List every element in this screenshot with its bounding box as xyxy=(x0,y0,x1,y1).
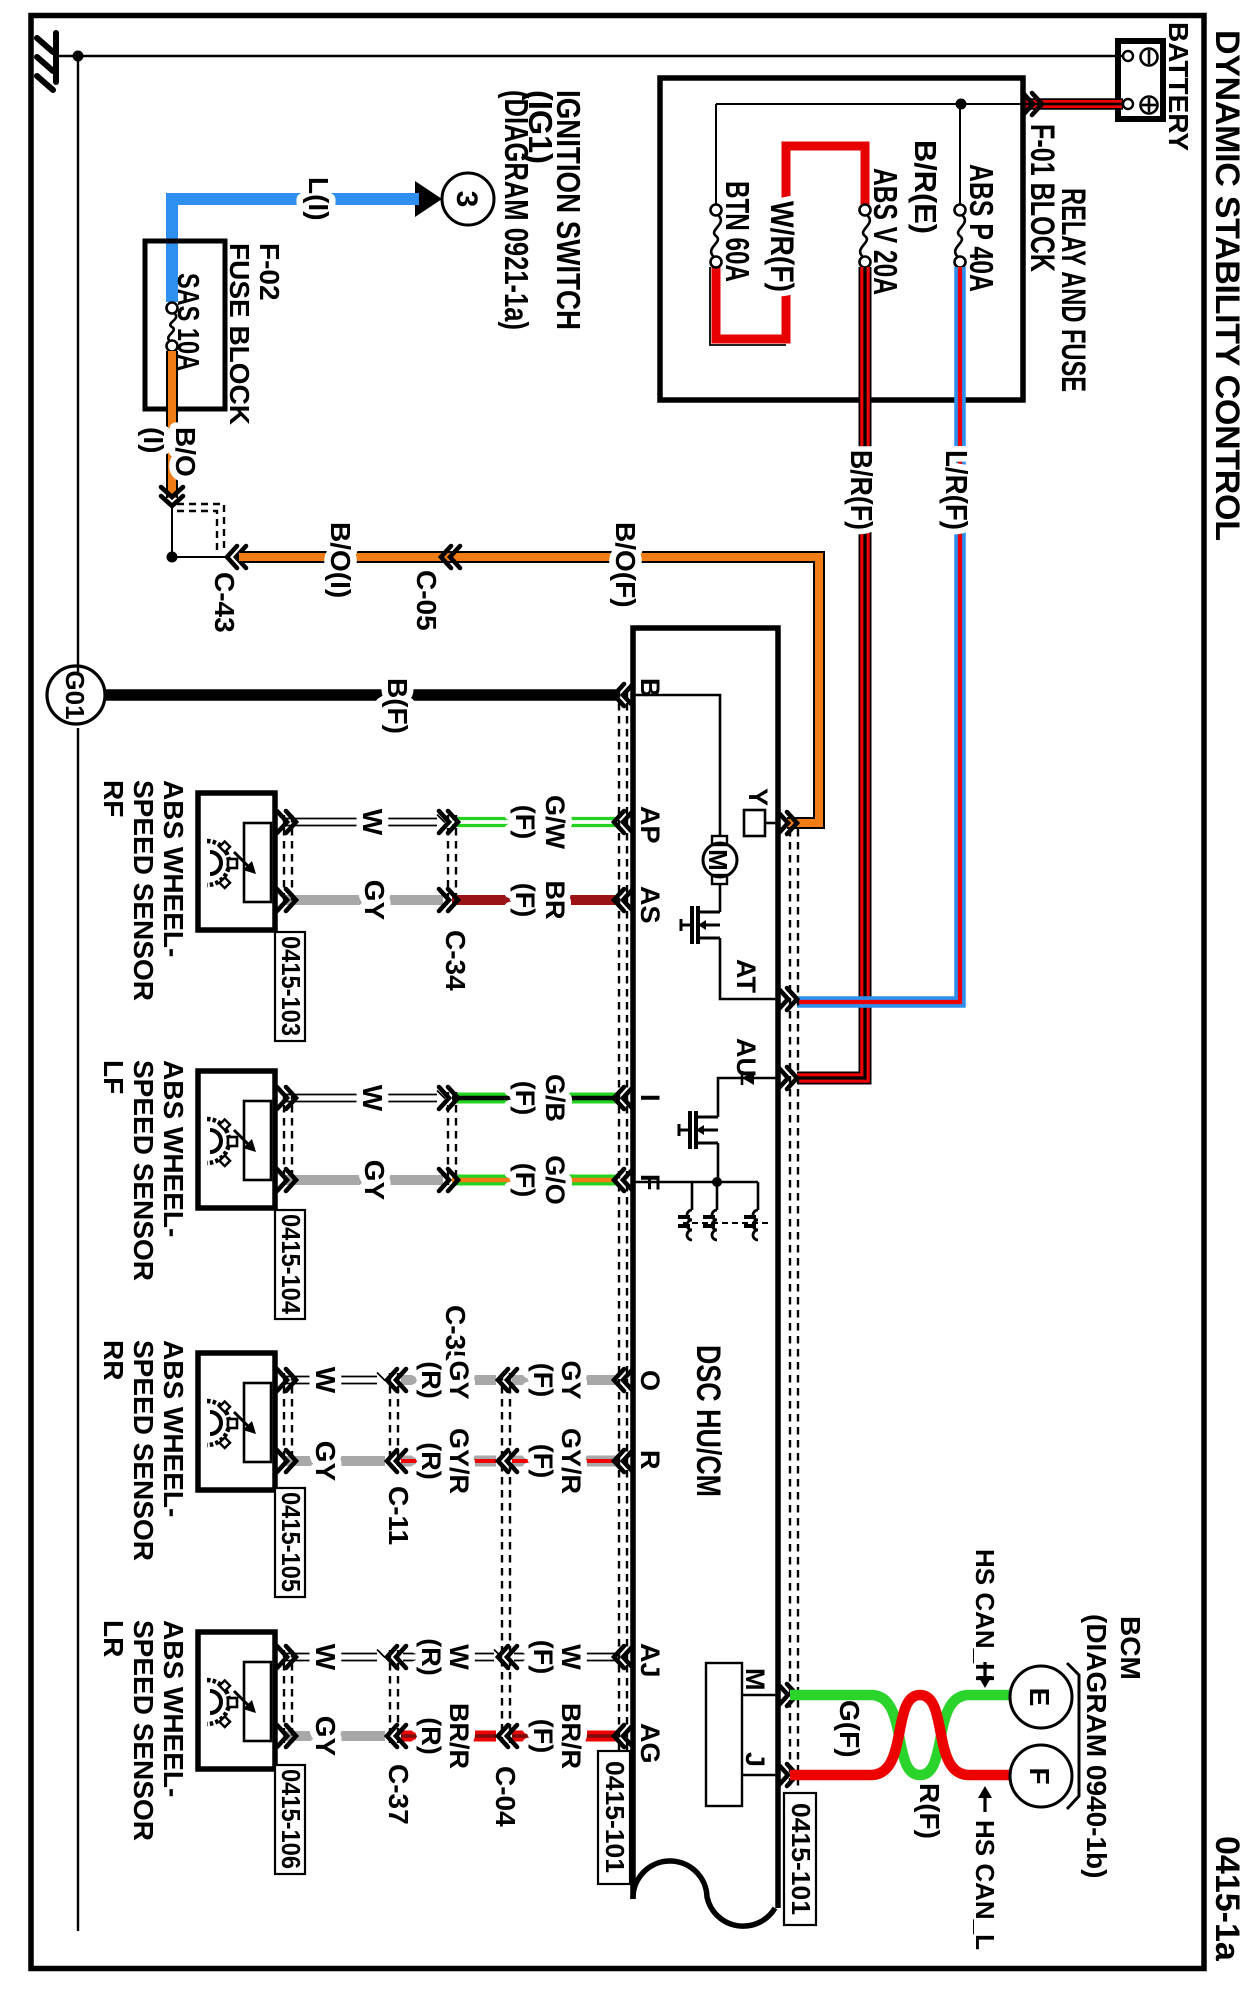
svg-text:B(F): B(F) xyxy=(382,678,413,734)
svg-text:M: M xyxy=(740,1668,770,1691)
svg-text:(F): (F) xyxy=(528,1363,558,1397)
svg-text:0415-105: 0415-105 xyxy=(276,1492,306,1592)
svg-text:(DIAGRAM 0921-1a): (DIAGRAM 0921-1a) xyxy=(498,90,535,330)
svg-text:DYNAMIC STABILITY CONTROL: DYNAMIC STABILITY CONTROL xyxy=(1208,30,1246,541)
svg-text:W: W xyxy=(310,1644,341,1671)
svg-text:0415-101: 0415-101 xyxy=(786,1803,816,1915)
svg-text:I: I xyxy=(635,1094,665,1102)
svg-text:3: 3 xyxy=(450,191,483,208)
svg-text:(DIAGRAM 0940-1b): (DIAGRAM 0940-1b) xyxy=(1081,1614,1112,1878)
svg-text:W: W xyxy=(357,809,388,836)
svg-text:W/R(F): W/R(F) xyxy=(764,201,800,292)
svg-text:Y: Y xyxy=(743,788,773,806)
svg-text:C-37: C-37 xyxy=(383,1764,414,1825)
svg-text:AT: AT xyxy=(731,959,761,993)
svg-text:0415-1a: 0415-1a xyxy=(1208,1836,1246,1962)
svg-text:G/B: G/B xyxy=(540,1074,570,1122)
svg-text:ABS V 20A: ABS V 20A xyxy=(867,168,904,295)
svg-text:AG: AG xyxy=(635,1723,665,1764)
svg-text:DSC HU/CM: DSC HU/CM xyxy=(689,1345,727,1497)
svg-text:C-11: C-11 xyxy=(383,1486,414,1545)
svg-text:W: W xyxy=(556,1644,586,1670)
svg-text:ABS WHEEL-: ABS WHEEL- xyxy=(158,1060,189,1237)
svg-text:SPEED SENSOR: SPEED SENSOR xyxy=(128,1620,159,1841)
svg-text:0415-103: 0415-103 xyxy=(276,936,306,1036)
svg-text:0415-104: 0415-104 xyxy=(276,1214,306,1314)
svg-text:B: B xyxy=(635,678,665,698)
svg-text:(R): (R) xyxy=(416,1361,446,1398)
svg-text:B/R(E): B/R(E) xyxy=(908,140,943,234)
svg-text:O: O xyxy=(635,1370,665,1391)
svg-text:(R): (R) xyxy=(416,1442,446,1479)
svg-text:AS: AS xyxy=(635,886,665,924)
svg-text:BR/R: BR/R xyxy=(556,1703,586,1769)
svg-text:ABS WHEEL-: ABS WHEEL- xyxy=(158,780,189,957)
svg-text:(F): (F) xyxy=(510,883,540,917)
svg-text:FUSE BLOCK: FUSE BLOCK xyxy=(224,243,255,425)
svg-text:BTN 60A: BTN 60A xyxy=(719,181,756,282)
svg-text:BR/R: BR/R xyxy=(444,1703,474,1769)
svg-text:GY: GY xyxy=(359,880,390,921)
svg-text:(I): (I) xyxy=(138,427,169,453)
svg-text:F: F xyxy=(1024,1767,1055,1784)
svg-text:SPEED SENSOR: SPEED SENSOR xyxy=(128,1340,159,1561)
svg-text:M: M xyxy=(703,849,733,871)
svg-text:C-43: C-43 xyxy=(209,572,240,633)
svg-text:(F): (F) xyxy=(528,1444,558,1478)
svg-text:GY/R: GY/R xyxy=(444,1428,474,1494)
svg-text:G/W: G/W xyxy=(540,795,570,850)
svg-text:L/R(F): L/R(F) xyxy=(939,450,974,530)
svg-text:LR: LR xyxy=(98,1620,129,1657)
svg-text:ABS P 40A: ABS P 40A xyxy=(963,164,1000,292)
svg-text:(F): (F) xyxy=(510,1163,540,1197)
svg-text:HS CAN_H: HS CAN_H xyxy=(970,1549,1000,1682)
svg-text:GY/R: GY/R xyxy=(556,1428,586,1494)
svg-text:F-01 BLOCK: F-01 BLOCK xyxy=(1023,124,1061,272)
svg-text:E: E xyxy=(1024,1688,1055,1707)
svg-text:F-02: F-02 xyxy=(254,243,285,301)
svg-text:AP: AP xyxy=(635,806,665,844)
svg-text:GY: GY xyxy=(556,1360,586,1399)
svg-text:(R): (R) xyxy=(416,1717,446,1754)
svg-text:GY: GY xyxy=(310,1441,341,1482)
svg-text:B/R(F): B/R(F) xyxy=(844,450,879,530)
svg-text:B/O(I): B/O(I) xyxy=(325,522,356,598)
svg-text:C-04: C-04 xyxy=(490,1766,521,1827)
svg-text:C-34: C-34 xyxy=(440,930,471,991)
svg-text:F: F xyxy=(635,1174,665,1191)
svg-text:GY: GY xyxy=(310,1716,341,1757)
svg-text:BATTERY: BATTERY xyxy=(1163,22,1194,151)
svg-text:C-35: C-35 xyxy=(440,1305,471,1366)
svg-text:J: J xyxy=(740,1752,770,1767)
svg-text:LF: LF xyxy=(98,1060,129,1094)
svg-text:L(I): L(I) xyxy=(303,177,334,221)
svg-text:R(F): R(F) xyxy=(914,1783,945,1839)
svg-text:AJ: AJ xyxy=(635,1643,665,1678)
svg-text:(R): (R) xyxy=(416,1638,446,1675)
svg-text:RF: RF xyxy=(98,780,129,817)
svg-text:0415-106: 0415-106 xyxy=(276,1769,306,1869)
svg-text:W: W xyxy=(310,1367,341,1394)
svg-text:SPEED SENSOR: SPEED SENSOR xyxy=(128,780,159,1001)
svg-text:W: W xyxy=(444,1644,474,1670)
svg-text:G/O: G/O xyxy=(540,1155,570,1205)
svg-text:W: W xyxy=(357,1085,388,1112)
svg-text:BCM: BCM xyxy=(1115,1616,1146,1680)
svg-text:RR: RR xyxy=(98,1340,129,1380)
svg-text:SPEED SENSOR: SPEED SENSOR xyxy=(128,1060,159,1281)
svg-text:GY: GY xyxy=(359,1160,390,1201)
svg-text:BR: BR xyxy=(540,881,570,920)
svg-text:ABS WHEEL-: ABS WHEEL- xyxy=(158,1340,189,1517)
svg-text:B/O: B/O xyxy=(170,427,201,477)
svg-text:(F): (F) xyxy=(528,1719,558,1753)
svg-text:HS CAN_L: HS CAN_L xyxy=(970,1820,1000,1950)
svg-text:B/O(F): B/O(F) xyxy=(610,522,641,608)
svg-text:C-05: C-05 xyxy=(411,570,442,631)
svg-text:(F): (F) xyxy=(528,1640,558,1674)
svg-text:G(F): G(F) xyxy=(834,1700,865,1758)
svg-text:ABS WHEEL-: ABS WHEEL- xyxy=(158,1620,189,1797)
svg-text:(F): (F) xyxy=(510,1081,540,1115)
svg-text:(F): (F) xyxy=(510,805,540,839)
svg-text:0415-101: 0415-101 xyxy=(600,1761,630,1873)
svg-text:GY: GY xyxy=(444,1360,474,1399)
svg-text:AU: AU xyxy=(731,1038,761,1077)
svg-text:G01: G01 xyxy=(60,670,90,719)
svg-text:R: R xyxy=(635,1450,665,1470)
